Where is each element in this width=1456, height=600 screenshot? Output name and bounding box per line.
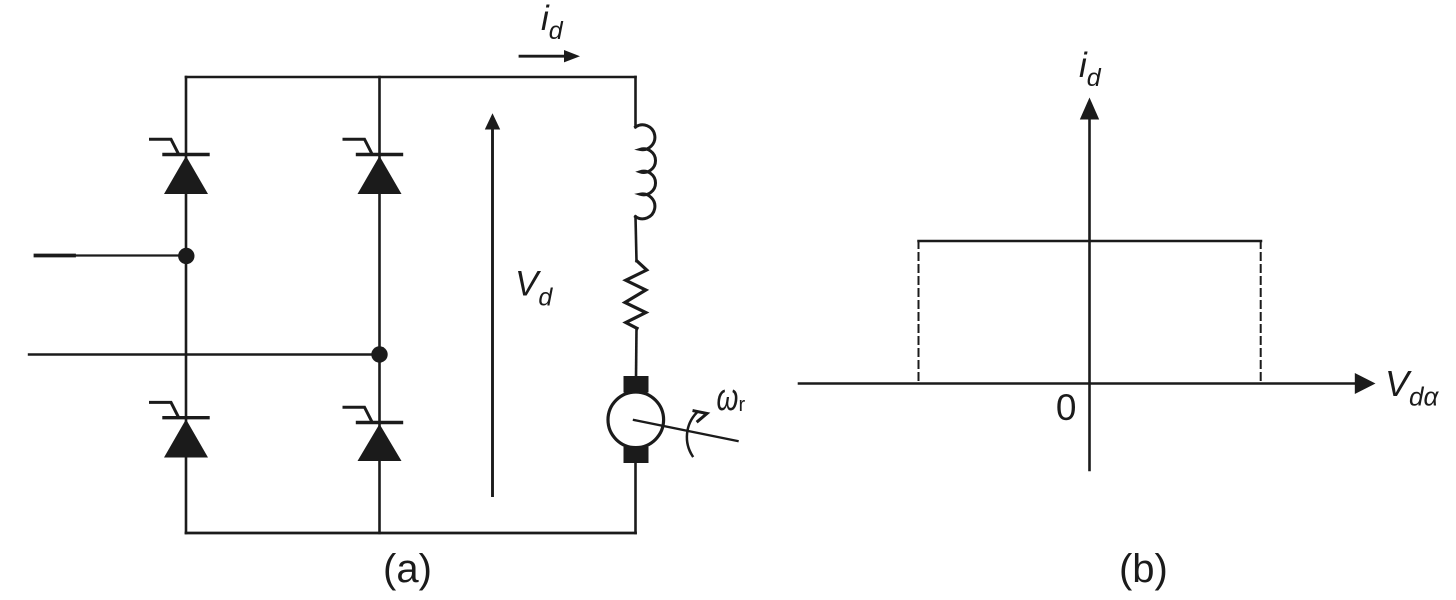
motor brush top (624, 376, 649, 393)
wire ac input line 1 (36, 254, 187, 258)
waveform top line (b) (919, 240, 1262, 243)
wire top bus (186, 76, 636, 79)
wire right leg top segment (634, 77, 637, 127)
wire ac input line 2 (29, 353, 380, 355)
arrow i_d top (520, 50, 580, 62)
wire bottom bus (186, 532, 636, 535)
thyristor T4 bottom-middle (344, 407, 402, 461)
wire motor to bottom bus (634, 463, 637, 533)
wire between resistor and motor (635, 328, 638, 378)
thyristor T1 top-left (151, 139, 209, 194)
svg-text:ω: ω (717, 377, 739, 419)
arrow V_d (485, 113, 500, 495)
inductor L (636, 125, 656, 219)
motor brush bottom (624, 447, 649, 463)
axis V_da horizontal (b) (799, 373, 1376, 394)
axis i_d vertical (b) (1080, 98, 1099, 471)
svg-text:(b): (b) (1119, 547, 1168, 591)
motor shaft line (634, 420, 738, 441)
resistor Ra (625, 261, 647, 328)
svg-text:0: 0 (1056, 387, 1077, 428)
thyristor T3 bottom-left (151, 402, 209, 457)
motor armature circle (608, 392, 664, 448)
rotation arrow arc (687, 411, 707, 456)
dashed line left (b) (918, 241, 920, 384)
thyristor T2 top-middle (344, 139, 402, 194)
node junction dot middle leg (371, 346, 387, 362)
node junction dot left leg (178, 248, 194, 264)
wire middle leg (378, 77, 381, 533)
wire between inductor and resistor (636, 217, 637, 261)
svg-text:(a): (a) (383, 547, 432, 591)
svg-text:r: r (739, 394, 746, 416)
dashed line right (b) (1260, 241, 1262, 384)
wire left leg (185, 77, 188, 533)
